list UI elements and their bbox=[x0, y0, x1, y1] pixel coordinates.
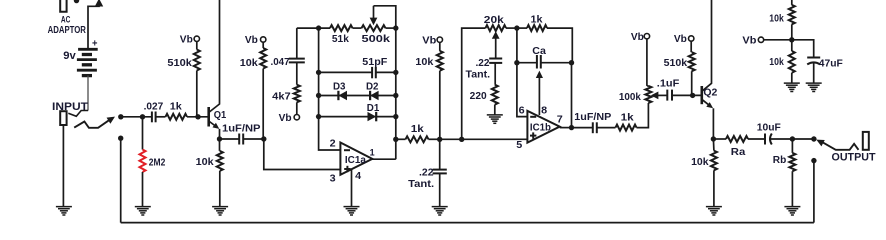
resistor 2M2 top lead bbox=[142, 117, 144, 150]
svg-text:Vb: Vb bbox=[279, 113, 292, 124]
IC1b pin8 supply arrow bbox=[536, 71, 543, 115]
node B junction bbox=[261, 136, 266, 141]
label battery plus bbox=[92, 38, 98, 50]
resistor 51k bbox=[330, 25, 353, 31]
svg-text:.22: .22 bbox=[419, 168, 434, 179]
resistor 1k output bbox=[616, 125, 637, 131]
wire bypass down bbox=[120, 138, 122, 222]
label Vb 10k bias bbox=[245, 35, 258, 46]
wire C3 to 4k7 bbox=[296, 62, 298, 84]
resistor 510k Q2 bbox=[689, 52, 695, 71]
resistor 10k Q2 bbox=[711, 151, 717, 171]
wire bottom bypass bus bbox=[121, 222, 814, 224]
resistor 10k divider bottom lead bbox=[791, 40, 793, 51]
wire diode row2 bbox=[319, 116, 396, 118]
capacitor .22 Tant wiper bbox=[489, 59, 502, 63]
wire 220 to ground bbox=[494, 105, 496, 115]
wire 500k to right rail bbox=[386, 27, 396, 29]
output jack plug bbox=[863, 132, 869, 150]
svg-text:Vb: Vb bbox=[742, 36, 756, 47]
svg-text:51pF: 51pF bbox=[362, 57, 387, 68]
resistor Rb bottom lead bbox=[791, 171, 793, 206]
ground 220 bbox=[487, 115, 503, 123]
node diode row1 right bbox=[393, 93, 398, 98]
resistor 1k interstage bbox=[406, 136, 429, 142]
label pin 1 bbox=[370, 148, 375, 158]
terminal Vb output bbox=[758, 37, 763, 42]
label OUTPUT bbox=[832, 151, 876, 163]
resistor Ra bbox=[726, 136, 748, 142]
resistor Rb bbox=[789, 153, 795, 171]
label pin 4 bbox=[355, 170, 361, 182]
capacitor C2 1uF/NP bbox=[239, 134, 243, 145]
label AC ADAPTOR bbox=[48, 14, 87, 36]
wire 510k to Q2 base bbox=[691, 71, 693, 95]
node diode row2 right bbox=[393, 114, 398, 119]
svg-text:510k: 510k bbox=[167, 58, 192, 69]
node Q2 base bbox=[690, 93, 695, 98]
wire 51pF row right bbox=[376, 71, 396, 73]
input signal squiggle wire bbox=[74, 119, 110, 128]
label 10k Q2 bbox=[691, 157, 709, 168]
wire Vb to 510k bbox=[196, 42, 198, 50]
op-amp IC1a bbox=[340, 143, 372, 175]
label 9v bbox=[63, 50, 76, 62]
wire IC1b right rail bbox=[571, 63, 574, 128]
ground input jack bbox=[56, 207, 72, 215]
resistor 4k7 bbox=[294, 85, 300, 103]
wire Vb to 510k Q2 bbox=[690, 41, 692, 52]
label .047 bbox=[271, 57, 290, 68]
svg-text:1uF/NP: 1uF/NP bbox=[574, 112, 611, 123]
IC1b plus sign bbox=[530, 132, 536, 138]
svg-text:IC1a: IC1a bbox=[345, 155, 366, 166]
wire 1k out to 100k pot bbox=[637, 103, 649, 128]
ground 10k divider bbox=[784, 83, 800, 91]
svg-text:9v: 9v bbox=[63, 50, 76, 62]
svg-text:Tant.: Tant. bbox=[408, 179, 434, 190]
node C1 left junction bbox=[140, 114, 145, 119]
svg-text:10k: 10k bbox=[691, 157, 709, 168]
svg-text:.1uF: .1uF bbox=[657, 79, 680, 90]
wire 20k left rail bbox=[462, 28, 486, 139]
wire battery positive to V+ arrow bbox=[88, 3, 99, 50]
resistor 2M2 bottom lead bbox=[142, 172, 144, 207]
ground Rb bbox=[784, 207, 800, 215]
wire Vb node to 47uF bbox=[792, 40, 814, 58]
label Tant C5 bbox=[408, 179, 434, 190]
label 47uF bbox=[819, 59, 843, 70]
wire node A to node 20k rail bbox=[440, 138, 462, 140]
wire 1k to Q1 base bbox=[187, 116, 209, 118]
potentiometer 100k wiper bbox=[651, 92, 668, 100]
wire 51k to 500k bbox=[353, 27, 362, 29]
wire Rb node to output tip bbox=[792, 138, 814, 140]
wire .22 to 220 bbox=[494, 63, 496, 85]
svg-text:51k: 51k bbox=[332, 34, 349, 45]
svg-text:1k: 1k bbox=[411, 124, 425, 135]
capacitor 47uF bbox=[807, 58, 820, 65]
label pin 5 bbox=[516, 139, 522, 151]
resistor 10k node A bbox=[437, 51, 443, 71]
resistor 10k divider bottom bbox=[789, 51, 795, 73]
transistor Q2 base bar bbox=[700, 86, 703, 104]
svg-text:6: 6 bbox=[519, 105, 525, 117]
wire Q1 emitter to C2 bbox=[220, 138, 240, 140]
capacitor Ca bbox=[537, 55, 541, 69]
svg-text:10k: 10k bbox=[196, 157, 214, 168]
svg-text:D1: D1 bbox=[367, 103, 380, 114]
svg-text:10k: 10k bbox=[240, 58, 258, 69]
svg-text:Q1: Q1 bbox=[214, 110, 227, 121]
svg-text:100k: 100k bbox=[619, 92, 641, 103]
transistor Q2 emitter bbox=[702, 99, 714, 139]
terminal Vb 10k bias bbox=[261, 37, 266, 42]
transistor Q1 emitter bbox=[209, 121, 220, 139]
svg-text:AC: AC bbox=[61, 14, 71, 25]
label 51k bbox=[332, 34, 349, 45]
transistor Q2 collector bbox=[702, 0, 712, 91]
label 4k7 bbox=[272, 92, 291, 103]
ground Q1 emitter resistor bbox=[212, 207, 228, 215]
node output tip bbox=[811, 136, 816, 141]
wire 47uF to ground bbox=[813, 63, 815, 83]
label .1uF bbox=[657, 79, 680, 90]
svg-text:Vb: Vb bbox=[245, 35, 258, 46]
wire Ca row left bbox=[517, 62, 537, 64]
svg-text:500k: 500k bbox=[362, 34, 391, 45]
diode D1 bbox=[368, 112, 377, 121]
node Q1 emitter bbox=[217, 136, 222, 141]
terminal Vb node A bbox=[437, 37, 442, 42]
svg-text:IC1b: IC1b bbox=[530, 123, 551, 134]
svg-text:Ra: Ra bbox=[731, 147, 746, 158]
label D3 bbox=[333, 81, 346, 92]
wire 510k to Q1 base bbox=[196, 71, 198, 117]
label .22 C5 bbox=[419, 168, 434, 179]
svg-text:Vb: Vb bbox=[180, 35, 193, 46]
wire IC1b output bbox=[560, 127, 572, 129]
node Ca row right bbox=[569, 60, 574, 65]
capacitor C7 1uF/NP bbox=[593, 122, 597, 133]
svg-text:.22: .22 bbox=[476, 58, 490, 69]
node Q2 emitter bbox=[711, 136, 716, 141]
node input tip bbox=[118, 114, 123, 119]
label 10uF bbox=[757, 122, 781, 133]
wire C8 to Rb node bbox=[770, 138, 792, 140]
label 510k Q1 bbox=[167, 58, 192, 69]
input signal arrow bbox=[107, 117, 115, 124]
node 51pF row left bbox=[316, 70, 321, 75]
label .027 bbox=[144, 101, 164, 112]
wire battery negative down to input jack contact bbox=[87, 76, 89, 111]
svg-text:510k: 510k bbox=[664, 58, 688, 69]
resistor 10k Q2 bottom lead bbox=[713, 170, 715, 206]
svg-text:Ca: Ca bbox=[532, 46, 546, 57]
wire 10k to node A bbox=[439, 71, 441, 140]
wire input plug to ground bbox=[62, 125, 64, 207]
resistor 10k Q1 emitter lead bbox=[219, 139, 221, 151]
svg-text:3: 3 bbox=[330, 173, 336, 185]
node pin6 rail top bbox=[514, 25, 519, 30]
V+ supply arrow bbox=[95, 0, 103, 6]
node top rail right bbox=[393, 25, 398, 30]
label 510k Q2 bbox=[664, 58, 688, 69]
wire C7 to 1k out bbox=[597, 127, 616, 129]
resistor 10k divider top bbox=[789, 5, 795, 24]
svg-text:D2: D2 bbox=[366, 81, 379, 92]
svg-text:Vb: Vb bbox=[631, 32, 644, 43]
wire 10k bias to node B bbox=[262, 69, 265, 140]
resistor 1k feedback bbox=[527, 25, 547, 31]
wire pin6 rail bbox=[517, 28, 528, 117]
label Vb Q2 bbox=[674, 34, 687, 45]
wire IC1a pin4 to ground bbox=[351, 169, 353, 207]
node bypass contact bbox=[118, 136, 123, 141]
wire 500k wiper bracket bbox=[374, 6, 396, 28]
potentiometer 100k bbox=[645, 86, 651, 103]
ground Q2 emitter resistor bbox=[706, 207, 722, 215]
ground 2M2 bbox=[135, 207, 151, 215]
node Vb divider bbox=[789, 37, 794, 42]
svg-text:.027: .027 bbox=[144, 101, 164, 112]
svg-text:2M2: 2M2 bbox=[149, 157, 166, 168]
potentiometer 500k bbox=[362, 25, 386, 31]
label 10k divider bottom bbox=[769, 57, 784, 68]
wire Vb to 10k node A bbox=[439, 42, 441, 51]
label Q2 bbox=[703, 88, 717, 99]
label 1k interstage bbox=[411, 124, 425, 135]
wire feedback top rail bbox=[297, 27, 330, 29]
svg-text:Vb: Vb bbox=[422, 36, 436, 47]
node diode row1 left bbox=[316, 93, 321, 98]
node output sleeve bbox=[811, 158, 816, 163]
wire Vb terminal to divider node bbox=[764, 39, 792, 41]
node 51pF row right bbox=[393, 70, 398, 75]
svg-text:1k: 1k bbox=[170, 101, 182, 112]
resistor 220 bbox=[492, 85, 498, 105]
input jack plug bbox=[60, 111, 66, 125]
label Tant wiper bbox=[466, 70, 491, 81]
label IC1a bbox=[345, 155, 366, 166]
node diode row2 left bbox=[316, 114, 321, 119]
label 10k Q1 bbox=[196, 157, 214, 168]
label D2 bbox=[366, 81, 379, 92]
wire 1k fb to right rail bbox=[547, 28, 572, 63]
svg-text:47uF: 47uF bbox=[819, 59, 843, 70]
label pin 8 bbox=[541, 105, 547, 117]
wire .1uF to Q2 base bbox=[672, 94, 702, 96]
label 20k bbox=[484, 15, 505, 26]
label Rb bbox=[773, 155, 787, 166]
label 1uF/NP C7 bbox=[574, 112, 611, 123]
AC adaptor jack J3 bbox=[60, 0, 66, 12]
svg-text:1k: 1k bbox=[531, 15, 543, 26]
label 2M2 bbox=[149, 157, 166, 168]
wire C5 to ground bbox=[439, 173, 441, 206]
node Q1 base bbox=[195, 114, 200, 119]
wire rail to 1k bbox=[396, 138, 406, 140]
resistor 10k bias bbox=[260, 48, 266, 69]
wire Vb to 10k bias bbox=[262, 42, 264, 48]
svg-text:1k: 1k bbox=[621, 113, 635, 124]
svg-text:Tant.: Tant. bbox=[466, 70, 491, 81]
svg-text:20k: 20k bbox=[484, 15, 505, 26]
svg-text:OUTPUT: OUTPUT bbox=[832, 151, 876, 163]
label INPUT bbox=[52, 101, 88, 113]
terminal Vb Q2 bbox=[689, 36, 694, 41]
label 1uF/NP C2 bbox=[222, 124, 261, 135]
label D1 bbox=[367, 103, 380, 114]
svg-text:10k: 10k bbox=[415, 57, 433, 68]
svg-text:5: 5 bbox=[516, 139, 522, 151]
node 1k branch bbox=[393, 137, 398, 142]
label 1k input bbox=[170, 101, 182, 112]
wire node to IC1b pin5 bbox=[462, 138, 528, 140]
label Vb 100k bbox=[631, 32, 644, 43]
wire node B to IC1a pin3 bbox=[264, 139, 341, 170]
terminal Vb 4k7 bbox=[294, 115, 299, 120]
node Rb top bbox=[790, 136, 795, 141]
resistor 10k Q2 lead bbox=[712, 139, 715, 151]
wire IC1a inverting rail bbox=[319, 28, 341, 150]
ground C5 bbox=[432, 207, 448, 215]
label Vb node A bbox=[422, 36, 436, 47]
wire IC1b out to C7 bbox=[572, 127, 593, 129]
resistor 1k input bbox=[166, 114, 188, 120]
label 10k divider top bbox=[769, 14, 784, 25]
svg-text:220: 220 bbox=[470, 91, 487, 102]
label pin 3 bbox=[330, 173, 336, 185]
wire top rail to C3 bbox=[296, 28, 298, 58]
wire 20k to node pin6 rail bbox=[506, 27, 517, 29]
battery B1 9v bbox=[77, 49, 98, 75]
node IC1b output bbox=[569, 125, 574, 130]
potentiometer 500k wiper bbox=[370, 6, 378, 25]
svg-text:10k: 10k bbox=[769, 14, 784, 25]
svg-text:Q2: Q2 bbox=[703, 88, 717, 99]
wire C1 to R 1k bbox=[156, 116, 166, 118]
svg-text:10uF: 10uF bbox=[757, 122, 781, 133]
potentiometer 20k wiper bbox=[492, 31, 500, 58]
svg-text:+: + bbox=[92, 38, 98, 50]
svg-text:ADAPTOR: ADAPTOR bbox=[48, 25, 87, 36]
svg-text:8: 8 bbox=[541, 105, 547, 117]
node A bbox=[437, 137, 442, 142]
svg-text:2: 2 bbox=[330, 137, 336, 149]
svg-text:1uF/NP: 1uF/NP bbox=[222, 124, 261, 135]
capacitor C1 .027 bbox=[152, 112, 156, 123]
label 220 bbox=[470, 91, 487, 102]
capacitor C3 .047 bbox=[289, 59, 305, 63]
ground 47uF bbox=[806, 83, 822, 91]
diode D2 bbox=[370, 91, 379, 100]
capacitor C8 10uF bbox=[765, 134, 772, 145]
IC1a minus sign bbox=[344, 149, 350, 151]
label 10k bias bbox=[240, 58, 258, 69]
resistor Rb lead bbox=[791, 139, 793, 153]
label 1k feedback bbox=[531, 15, 543, 26]
wire Ca row right bbox=[541, 62, 572, 64]
svg-text:.047: .047 bbox=[271, 57, 290, 68]
svg-text:1: 1 bbox=[370, 148, 375, 158]
wire 51pF row left bbox=[319, 71, 373, 73]
label pin 2 bbox=[330, 137, 336, 149]
input jack tip contact bbox=[68, 111, 88, 117]
resistor 510k Q1 bbox=[194, 50, 200, 71]
transistor Q1 collector bbox=[209, 0, 220, 113]
wire C2 to node B bbox=[243, 138, 264, 140]
label 500k bbox=[362, 34, 391, 45]
op-amp IC1b bbox=[527, 111, 559, 143]
svg-text:4: 4 bbox=[355, 170, 361, 182]
IC1a plus sign bbox=[344, 166, 350, 172]
label IC1b bbox=[530, 123, 551, 134]
terminal Vb Q1 bias bbox=[194, 36, 199, 41]
wire Vb to 100k pot bbox=[647, 39, 649, 86]
wire V+ to 10k divider bbox=[791, 0, 793, 5]
wire diode row1 bbox=[319, 95, 396, 97]
diode D3 bbox=[338, 91, 347, 100]
resistor 10k Q1 bbox=[217, 151, 223, 171]
capacitor .1uF bbox=[667, 90, 672, 101]
wire bypass up to output sleeve bbox=[813, 161, 815, 223]
label .22 wiper bbox=[476, 58, 490, 69]
terminal Vb 100k bbox=[644, 34, 649, 39]
svg-text:4k7: 4k7 bbox=[272, 92, 291, 103]
svg-text:D3: D3 bbox=[333, 81, 346, 92]
wire Q2 emitter to Ra bbox=[713, 138, 726, 140]
svg-text:Rb: Rb bbox=[773, 155, 787, 166]
label 1k output bbox=[621, 113, 635, 124]
label pin 6 bbox=[519, 105, 525, 117]
output signal arrow bbox=[816, 140, 858, 150]
capacitor C5 .22 Tant bbox=[433, 170, 447, 174]
label Ca bbox=[532, 46, 546, 57]
ground IC1a bbox=[344, 207, 360, 215]
wire node A down to C5 bbox=[439, 139, 441, 169]
label Q1 bbox=[214, 110, 227, 121]
node 20k rail bottom bbox=[459, 137, 464, 142]
label 10k node A bbox=[415, 57, 433, 68]
wire 1k to node A bbox=[429, 138, 440, 140]
label 100k bbox=[619, 92, 641, 103]
wire Ra to C8 bbox=[748, 138, 765, 140]
potentiometer 20k bbox=[486, 25, 507, 31]
node top rail left bbox=[316, 25, 321, 30]
svg-text:7: 7 bbox=[557, 113, 563, 125]
label Vb 4k7 bbox=[279, 113, 292, 124]
wire node to 1k fb bbox=[517, 27, 527, 29]
svg-text:10k: 10k bbox=[769, 57, 784, 68]
junction dot top-left cut wire bbox=[74, 0, 79, 3]
label pin 7 bbox=[557, 113, 563, 125]
wire 10k to Vb node bbox=[791, 24, 793, 40]
wire IC1a output rail bbox=[395, 28, 397, 159]
wire 10k bottom to ground bbox=[791, 73, 793, 83]
transistor Q1 base bar bbox=[207, 107, 210, 127]
label Ra bbox=[731, 147, 746, 158]
wire IC1a output bbox=[372, 158, 396, 160]
IC1b minus sign bbox=[530, 116, 536, 118]
wire 4k7 to Vb terminal bbox=[296, 102, 298, 114]
resistor 10k Q1 bottom lead bbox=[219, 171, 221, 207]
node Ca row left bbox=[514, 60, 519, 65]
wire input node to C1 bbox=[121, 116, 152, 118]
resistor 2M2 bbox=[140, 150, 146, 173]
label Vb output bbox=[742, 36, 756, 47]
svg-text:Vb: Vb bbox=[674, 34, 687, 45]
